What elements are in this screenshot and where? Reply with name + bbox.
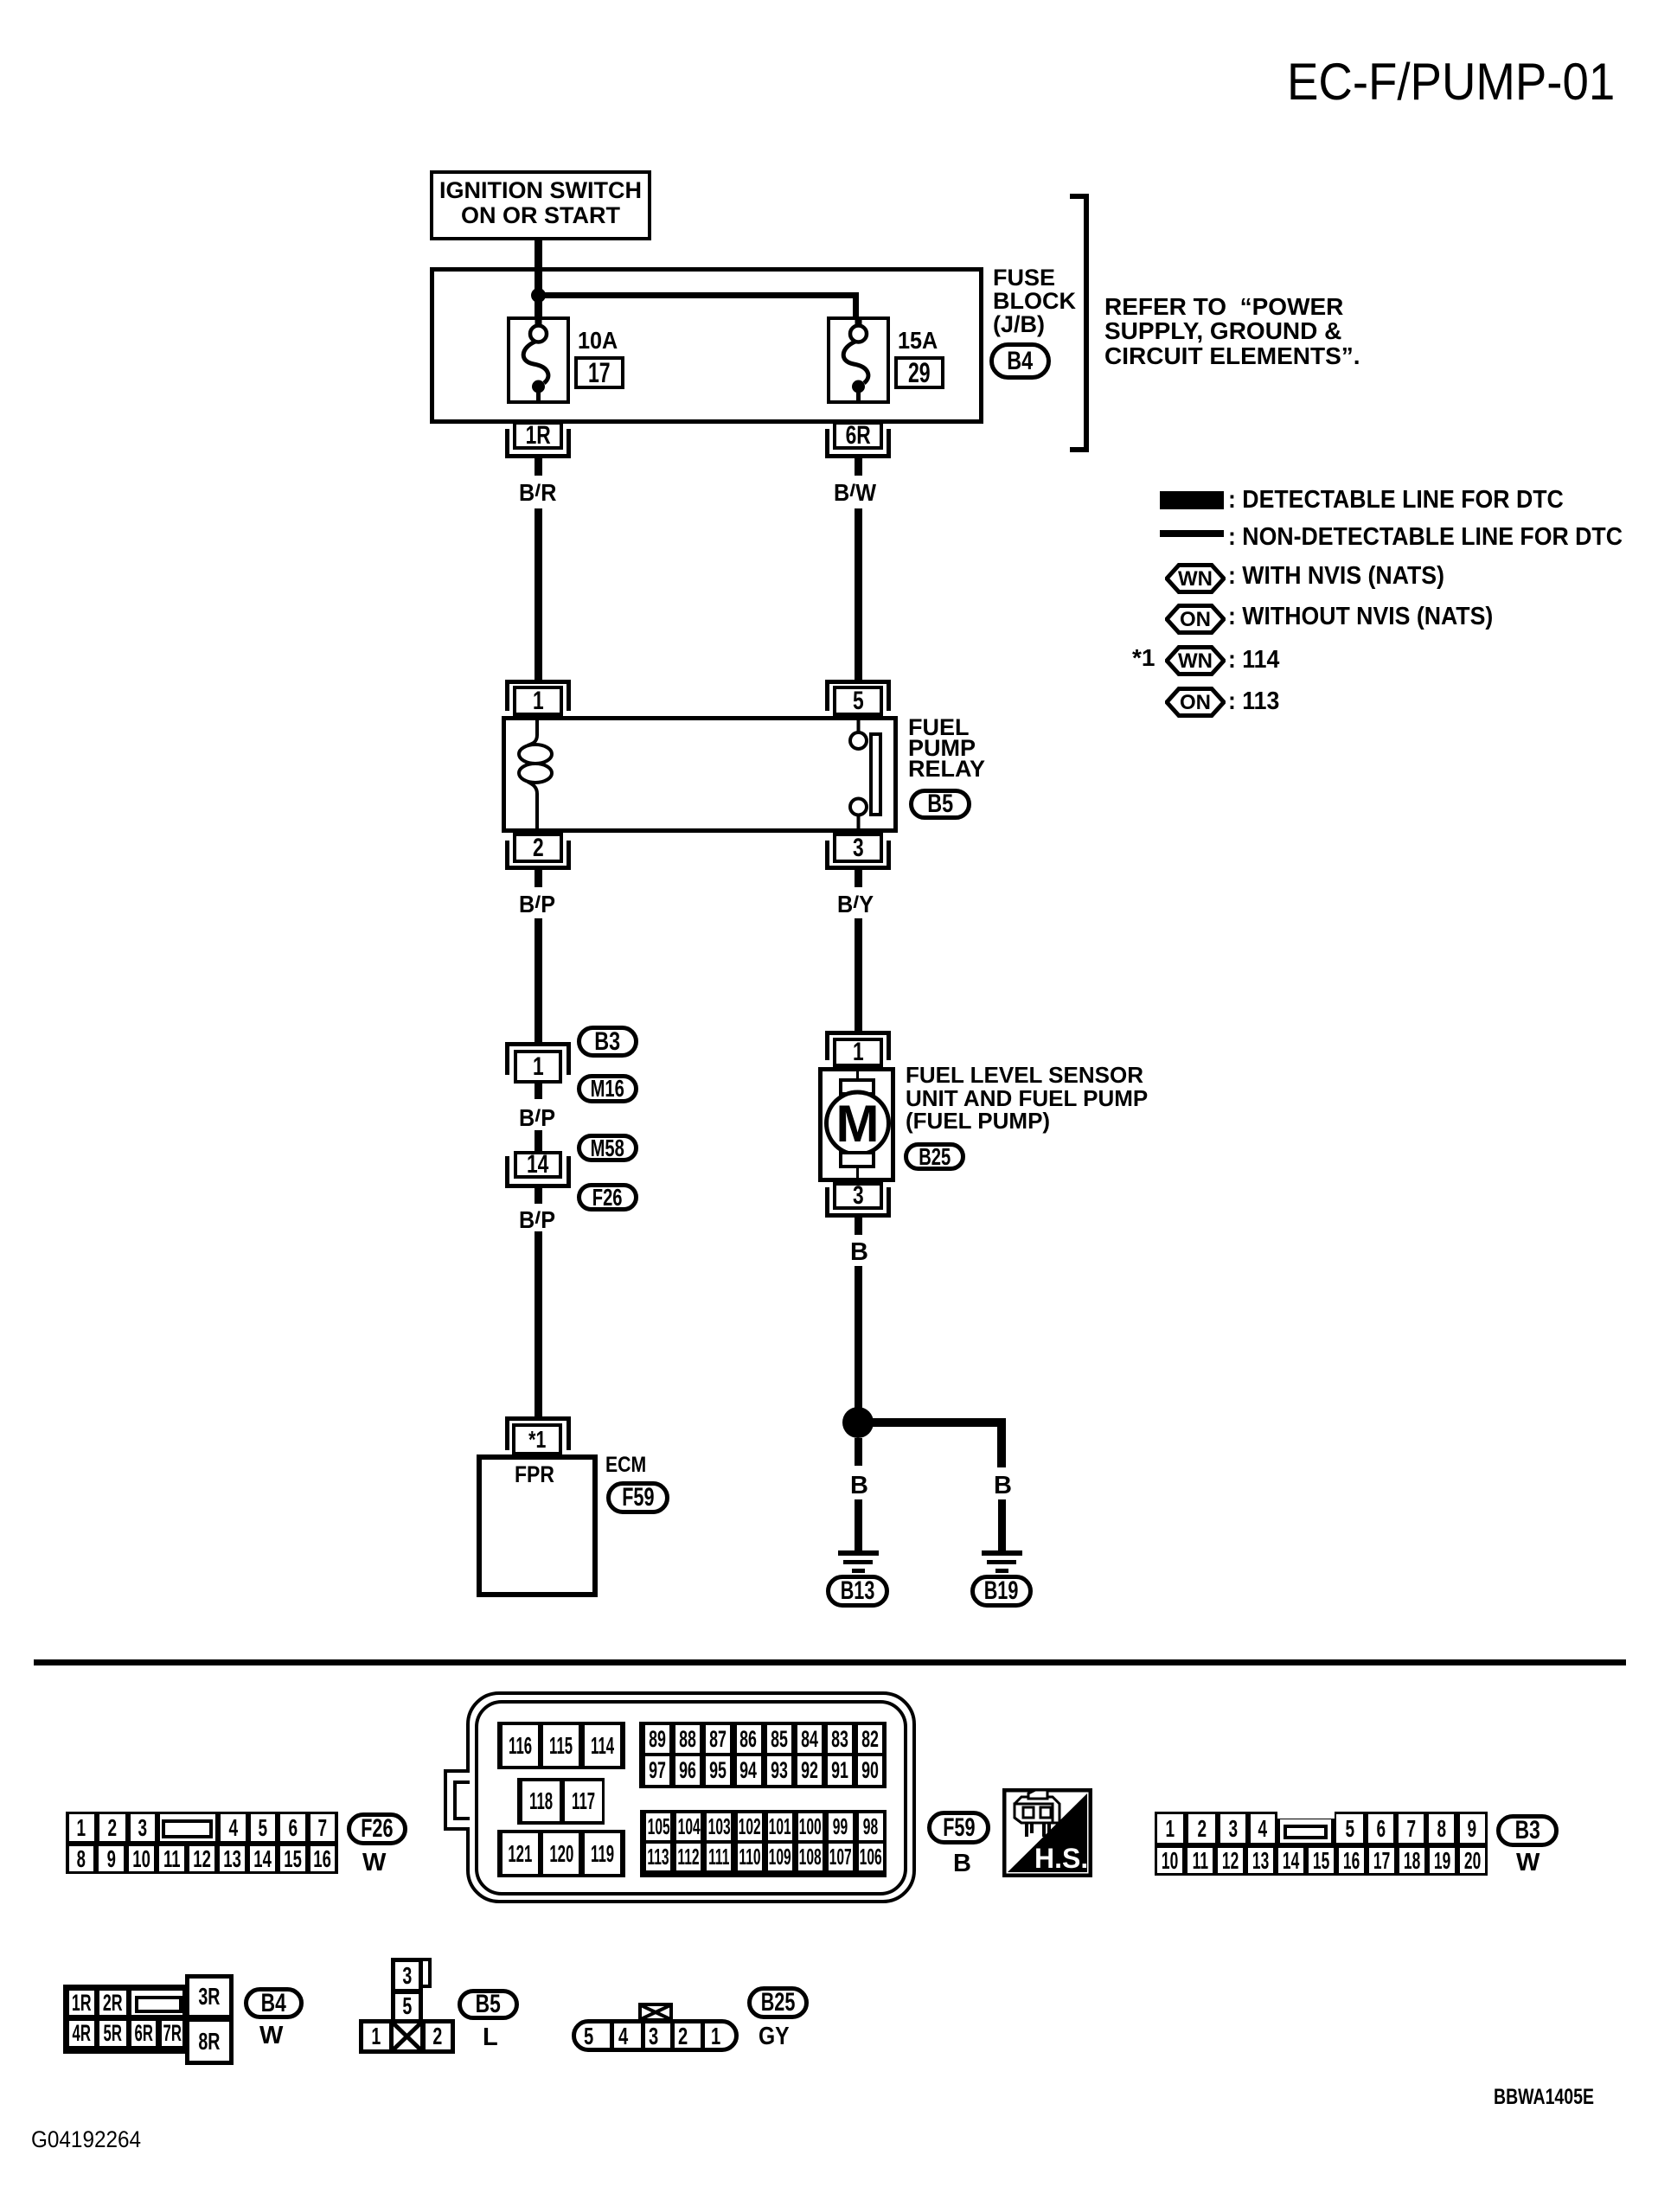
- wire ignition to fuse block: [535, 240, 542, 326]
- F59 cells 89-82 97-90: [639, 1722, 887, 1788]
- pump pin 3: [833, 1182, 883, 1210]
- ground symbol right: [982, 1550, 1022, 1556]
- fuse number box 17: [574, 356, 624, 389]
- wire B/R stub: [535, 458, 542, 476]
- legend WN symbol: [1165, 563, 1226, 594]
- connector badge B13: [826, 1575, 889, 1608]
- connector badge B3: [577, 1026, 638, 1058]
- connector badge B25: [904, 1142, 965, 1171]
- ignition switch box: [430, 170, 651, 240]
- wire branch to right ground: [869, 1418, 1006, 1427]
- wire branch to 15A fuse: [538, 292, 859, 298]
- F59 side tab: [444, 1769, 470, 1831]
- pump label: [906, 1064, 1148, 1133]
- label 10A: [578, 329, 622, 353]
- legend ON 113: [1165, 687, 1226, 718]
- connector badge B5 bottom: [458, 1989, 519, 2020]
- junction node in fuse block: [531, 288, 546, 303]
- F59 cells 116-114: [497, 1722, 625, 1769]
- wire B/P stub below connector 1: [535, 1084, 542, 1099]
- pump pin 1: [825, 1031, 891, 1060]
- wire to left ground: [855, 1499, 862, 1550]
- ground junction node: [842, 1407, 874, 1438]
- wire B/Y stub: [855, 870, 862, 887]
- B5 crossed cell: [389, 2019, 425, 2054]
- relay switch contacts: [857, 716, 861, 732]
- label B/R: [519, 481, 560, 505]
- label B/P 2: [519, 1106, 560, 1130]
- wire B stub below pump: [855, 1218, 862, 1235]
- connector badge M16: [577, 1074, 638, 1103]
- wire B/P stub: [535, 870, 542, 887]
- legend ON symbol: [1165, 604, 1226, 635]
- B4 cell 8R: [185, 2017, 234, 2065]
- fuel pump motor: [818, 1067, 895, 1182]
- legend non-detectable text: [1228, 525, 1657, 550]
- legend detectable text: [1228, 488, 1593, 513]
- connector badge F26: [577, 1183, 638, 1211]
- ground symbol left: [838, 1550, 879, 1556]
- label B right ground: [994, 1474, 1012, 1499]
- fuse 10A (no.17): [507, 316, 570, 404]
- fuse number box 29: [894, 356, 944, 389]
- relay label: [908, 717, 985, 779]
- wire B/R: [535, 508, 542, 680]
- label B/P 3: [519, 1208, 560, 1232]
- wire B/P to ECM: [535, 1231, 542, 1416]
- H.S. symbol: [1002, 1788, 1092, 1877]
- separator line: [34, 1659, 1626, 1665]
- wire B/Y: [855, 918, 862, 1031]
- B4 cell 3R: [185, 1974, 234, 2019]
- label B below pump: [850, 1240, 868, 1265]
- fuel pump relay box: [502, 716, 898, 833]
- label B left ground: [850, 1474, 868, 1499]
- F59 cells 118 117: [517, 1778, 605, 1825]
- wire B/W stub: [855, 458, 862, 476]
- ECM box: [477, 1454, 598, 1597]
- connector view B25: [572, 2019, 739, 2052]
- svg-text:M: M: [836, 1095, 880, 1153]
- connector view F26: [66, 1812, 338, 1874]
- right bracket of fuse block: [1084, 194, 1089, 452]
- wire B/P: [535, 918, 542, 1042]
- legend WN 114: [1165, 645, 1226, 676]
- label B/Y: [837, 892, 878, 917]
- ECM pin *1: [505, 1416, 571, 1450]
- connector badge B4 bottom: [244, 1987, 304, 2019]
- figure id BBWA1405E: [1494, 2087, 1623, 2108]
- connector badge B4: [989, 342, 1051, 380]
- title EC-F/PUMP-01: [1287, 56, 1648, 108]
- connector view B5: [391, 1958, 423, 1993]
- svg-text:ON: ON: [1180, 691, 1211, 714]
- wire B down to junction: [855, 1266, 862, 1410]
- label ECM: [605, 1454, 654, 1476]
- connector view B4: [63, 1985, 189, 2054]
- connector badge F59: [606, 1481, 669, 1514]
- inline connector pin 1: [505, 1042, 571, 1075]
- fuel pump box: [818, 1067, 895, 1182]
- relay pin 5: [825, 680, 891, 711]
- F59 cells 105-98 113-106: [640, 1810, 887, 1877]
- fuse block label: [993, 266, 1076, 336]
- connector badge F59 bottom: [927, 1811, 990, 1844]
- wire B/P stub below connector 14: [535, 1188, 542, 1204]
- svg-text:H.S.: H.S.: [1034, 1843, 1088, 1874]
- relay pin 1: [505, 680, 571, 711]
- svg-text:WN: WN: [1178, 567, 1213, 591]
- connector badge M58: [577, 1134, 638, 1162]
- legend thin line symbol: [1160, 530, 1224, 537]
- wire ignition inside fuse block: [535, 269, 542, 326]
- note *1: [1132, 646, 1155, 670]
- note REFER TO POWER SUPPLY: [1104, 295, 1360, 369]
- connector badge B5: [909, 789, 971, 820]
- pin 1R of fuse block: [505, 429, 571, 458]
- inline connector pin 14: [514, 1151, 562, 1179]
- relay pin 2: [513, 833, 563, 863]
- label 15A: [898, 329, 942, 353]
- relay pin 3: [833, 833, 883, 863]
- connector badge B3 bottom: [1496, 1814, 1559, 1847]
- connector view F59 ECM: [466, 1691, 916, 1903]
- wire B/P to connector 14: [535, 1130, 542, 1152]
- svg-text:WN: WN: [1178, 649, 1213, 673]
- fuse block (J/B) outline: [430, 267, 983, 424]
- connector badge B25 bottom: [747, 1986, 809, 2019]
- connector badge B19: [970, 1575, 1033, 1608]
- wire B/W: [855, 508, 862, 680]
- relay coil: [502, 716, 898, 833]
- wire to right ground: [998, 1499, 1006, 1550]
- pin 6R of fuse block: [825, 429, 891, 458]
- connector badge F26 bottom: [347, 1812, 407, 1845]
- figure id G04192264: [31, 2128, 153, 2151]
- wire below junction: [855, 1438, 862, 1466]
- fuse 15A (no.29): [827, 316, 890, 404]
- label B/P: [519, 892, 560, 917]
- B25 keyway crossed box: [638, 2003, 673, 2022]
- F59 cells 121-119: [497, 1830, 625, 1877]
- svg-text:ON: ON: [1180, 608, 1211, 631]
- connector view B3: [1155, 1812, 1488, 1876]
- label FPR: [515, 1463, 561, 1486]
- label B/W: [834, 481, 880, 505]
- legend thick line symbol: [1160, 491, 1224, 509]
